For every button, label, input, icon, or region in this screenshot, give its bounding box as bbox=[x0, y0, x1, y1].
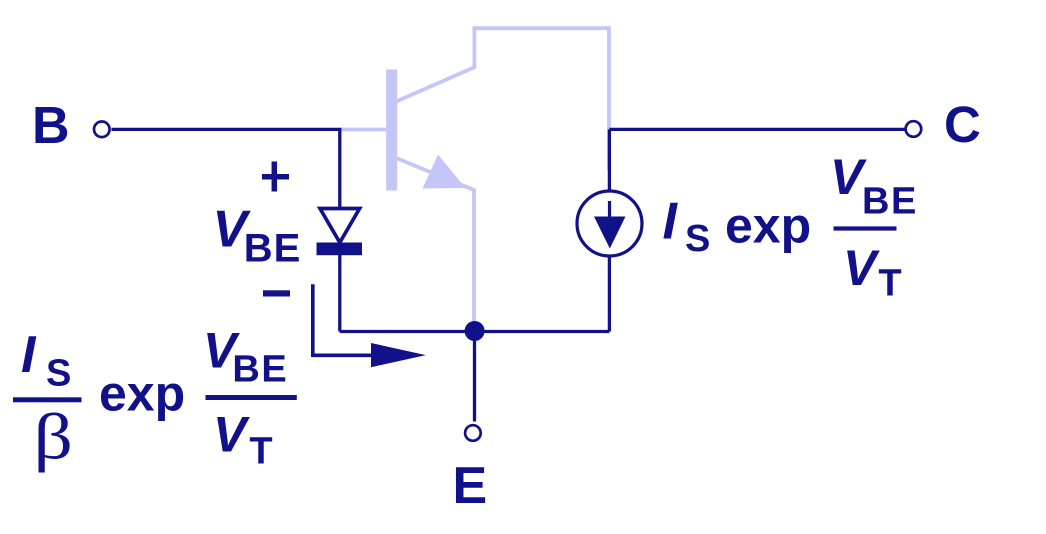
svg-text:B: B bbox=[32, 97, 70, 155]
svg-text:I: I bbox=[21, 326, 37, 384]
base bar (ghost) bbox=[386, 70, 397, 191]
svg-text:S: S bbox=[685, 218, 710, 260]
svg-text:T: T bbox=[878, 263, 901, 305]
svg-text:V: V bbox=[213, 407, 250, 463]
base current arrow bbox=[313, 284, 373, 355]
emitter arrowhead (ghost) bbox=[423, 155, 466, 189]
svg-text:BE: BE bbox=[232, 348, 288, 390]
svg-text:exp: exp bbox=[725, 198, 811, 254]
wire E terminal bbox=[473, 332, 476, 422]
svg-text:BE: BE bbox=[862, 181, 918, 223]
wire diode bottom to emitter node bbox=[338, 253, 341, 332]
svg-text:I: I bbox=[663, 193, 679, 251]
wire corner to current source top bbox=[608, 129, 611, 191]
svg-text:T: T bbox=[249, 431, 272, 473]
transistor U1 (ghost symbol) bbox=[339, 28, 609, 325]
svg-text:β: β bbox=[34, 400, 73, 473]
base lead (ghost) bbox=[339, 128, 386, 132]
plus sign bbox=[262, 162, 289, 192]
collector lead (ghost) bbox=[397, 28, 609, 170]
current source I1 circle bbox=[577, 191, 642, 256]
current source I1 arrow bbox=[608, 201, 611, 222]
wire to C terminal bbox=[609, 128, 904, 131]
terminal E bbox=[465, 425, 481, 441]
svg-text:V: V bbox=[843, 240, 880, 296]
minus sign bbox=[263, 290, 290, 296]
diode D1 cathode bar bbox=[317, 243, 363, 256]
terminal C bbox=[906, 121, 922, 137]
diode D1 triangle bbox=[320, 209, 360, 243]
node E junction dot bbox=[465, 321, 485, 341]
emitter lead (ghost) bbox=[397, 158, 474, 325]
svg-text:C: C bbox=[944, 96, 981, 153]
svg-text:BE: BE bbox=[244, 227, 302, 271]
svg-text:exp: exp bbox=[99, 365, 185, 421]
terminal B bbox=[94, 122, 110, 138]
wire B to diode top corner bbox=[112, 129, 340, 208]
wire bottom node rail bbox=[340, 330, 610, 333]
wire current source bottom to node rail bbox=[608, 256, 611, 332]
svg-text:E: E bbox=[453, 457, 488, 515]
svg-text:S: S bbox=[46, 353, 71, 395]
